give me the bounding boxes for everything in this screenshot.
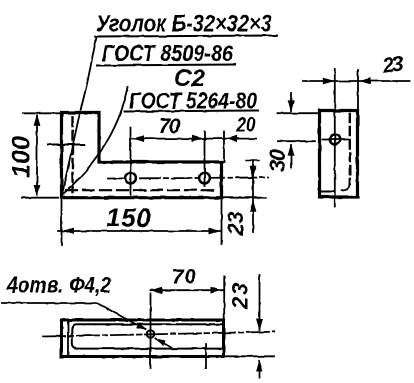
- leader line 1 (to ГОСТ 8509-86): [62, 37, 97, 196]
- bracket outline (front view): [62, 113, 222, 198]
- bend line (bottom view): [67, 321, 69, 356]
- hidden line horizontal (front view): [66, 189, 218, 191]
- center line through holes (front view): [108, 178, 268, 179]
- svg-text:100: 100: [8, 136, 36, 178]
- underline 2: [96, 65, 236, 66]
- side view outline: [320, 111, 358, 198]
- dimension 100: extension lines: [23, 112, 60, 114]
- dimension 23 (side top): dimension line: [303, 80, 410, 82]
- svg-text:4отв. Ф4,2: 4отв. Ф4,2: [6, 273, 112, 298]
- hole 2 vertical center line (bottom view): [205, 344, 207, 368]
- hidden line vertical (side view): [349, 114, 351, 184]
- leader second arrow: [156, 339, 172, 348]
- dimension 150: dimension line: [58, 230, 220, 232]
- dimension 30 (side left): extension lines: [278, 112, 317, 114]
- hole 1 vertical center line (bottom view): [150, 294, 152, 369]
- svg-text:70: 70: [172, 266, 196, 289]
- svg-text:ГОСТ 8509-86: ГОСТ 8509-86: [102, 40, 233, 66]
- hole 1 center line: [130, 128, 132, 195]
- dimension 150: extension lines: [61, 200, 63, 245]
- dimension 100: dimension line: [36, 116, 38, 194]
- extension line (side right edge): [357, 70, 359, 110]
- svg-text:ГОСТ 5264-80: ГОСТ 5264-80: [129, 88, 257, 114]
- extension line at right edge (20 dim): [223, 131, 225, 162]
- bottom edge extension (bottom view): [224, 355, 275, 357]
- dimension 23 (bottom right): [259, 275, 261, 330]
- svg-text:Уголок Б-32×32×3: Уголок Б-32×32×3: [96, 11, 273, 38]
- underline 1: [94, 36, 278, 37]
- hidden line horizontal (side view): [322, 191, 333, 193]
- leader line 2 (to ГОСТ 5264-80): [63, 88, 129, 195]
- svg-text:150: 150: [106, 203, 152, 233]
- dimension 23 (front right): [252, 162, 254, 233]
- hole (bottom view): [147, 330, 155, 338]
- svg-text:70: 70: [159, 115, 181, 138]
- hole 2 (front view): [199, 173, 210, 184]
- svg-text:20: 20: [236, 114, 256, 137]
- underline 4: [124, 111, 260, 112]
- svg-text:30: 30: [265, 148, 290, 172]
- dimension 70 (bottom): dimension line: [151, 289, 224, 291]
- tick mark on vertical leg: [48, 144, 84, 146]
- horizontal center line (bottom view): [43, 332, 274, 337]
- extension line (bottom 70 right): [223, 276, 225, 320]
- leader diagonal: [97, 303, 146, 330]
- horizontal center line (side view hole): [323, 139, 349, 141]
- dimension 70/20 (front top): dimension line: [132, 138, 256, 140]
- inner contour (bottom view): [72, 324, 224, 348]
- hole 2 center line: [204, 131, 206, 186]
- hidden line vertical (front view): [71, 117, 73, 192]
- bottom edge extension (front view): [222, 197, 267, 199]
- hole 1 (front view): [125, 173, 136, 184]
- dimension 30: arrows: [290, 93, 292, 111]
- svg-text:23: 23: [223, 212, 248, 237]
- tick at 23 dim tail: [246, 160, 259, 162]
- bottom view outline: [62, 320, 224, 357]
- hole (side view): [330, 135, 340, 145]
- vertical center line (side view): [334, 69, 336, 206]
- svg-text:23: 23: [380, 52, 405, 78]
- leader shelf (4 holes note): [2, 302, 97, 304]
